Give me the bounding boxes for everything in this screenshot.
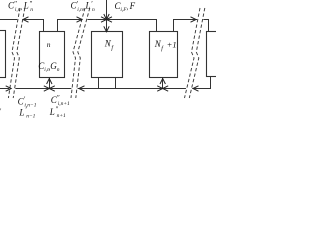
label CiF,F top-right	[115, 1, 136, 13]
arrow left converging at top junction	[107, 17, 113, 22]
arrow left on top wire 1	[23, 17, 29, 22]
arrow right converging at top junction	[101, 17, 107, 22]
wire vertical into box Nf	[106, 0, 108, 32]
label C'in-1 bottom-left	[18, 96, 37, 109]
svg-text:n+1: n+1	[57, 113, 66, 119]
arrow up into box Nf+1 bottom	[160, 79, 165, 85]
label Nf+1 in box Nf+1	[154, 39, 177, 52]
box unit Nf	[92, 32, 123, 78]
arrow right on top wire 2	[77, 17, 83, 22]
arrow left converging at bottom junction n	[49, 86, 55, 91]
arrow right on bottom wire at left	[6, 86, 12, 91]
label L'n-1 bottom-left	[18, 106, 35, 120]
svg-text:n: n	[57, 67, 60, 73]
box unit Nf+1	[150, 32, 178, 78]
box unit n-1 (partial at left edge)	[0, 31, 6, 78]
label Cin,Gn in box n	[38, 61, 60, 73]
label L''n+1 bottom-middle	[49, 105, 66, 119]
wire from junction to box Nf+1	[107, 20, 157, 32]
svg-text:+1: +1	[167, 39, 177, 49]
svg-text:L: L	[49, 107, 55, 117]
break symbol 3	[185, 8, 205, 98]
label C'in,L'n top-middle	[71, 0, 96, 13]
label n in box n	[47, 40, 51, 49]
wire stub below box Nf+1	[162, 78, 164, 89]
svg-text:F: F	[129, 1, 136, 11]
break symbol 1	[8, 8, 24, 98]
wire top-right from box Nf+1	[174, 20, 209, 32]
svg-text:L: L	[85, 1, 91, 11]
svg-text:i,n+1: i,n+1	[58, 101, 70, 107]
wire top-left horizontal	[0, 20, 44, 32]
svg-text:n−1: n−1	[26, 113, 35, 119]
break symbol 2	[71, 8, 90, 98]
arrow right on top wire 4	[191, 17, 197, 22]
svg-text:,: ,	[21, 3, 23, 11]
arrow right converging at bottom junction Nf+1	[157, 86, 163, 91]
svg-text:L: L	[23, 1, 29, 11]
box unit right (partial at right edge)	[207, 32, 224, 77]
arrow down into box Nf top	[104, 26, 109, 32]
wire top from box n to junction	[58, 20, 107, 32]
svg-text:n: n	[92, 7, 95, 13]
label C''in+1 bottom-middle	[51, 94, 70, 107]
svg-text:,: ,	[127, 4, 129, 12]
label Nf in box Nf	[104, 39, 115, 52]
arrow right converging at bottom junction n	[44, 86, 50, 91]
arrow up into box n bottom	[47, 79, 52, 85]
arrow left converging at bottom junction Nf+1	[163, 86, 169, 91]
svg-text:L: L	[18, 107, 24, 117]
wire stub below box Nf right	[115, 78, 117, 89]
box unit n	[40, 32, 65, 78]
label C''in,L''n top-left	[8, 0, 33, 13]
wire bottom horizontal	[0, 77, 211, 89]
svg-text:n: n	[47, 40, 51, 49]
arrow left on bottom wire right of break 3	[193, 86, 199, 91]
wire stub below box Nf left	[98, 78, 100, 89]
cut-off prime mark at bottom-left edge	[0, 108, 2, 116]
wire stub below box n	[49, 78, 51, 89]
arrow left on bottom wire right of break 2	[79, 86, 85, 91]
svg-text:n: n	[30, 7, 33, 13]
arrow down at top junction	[104, 14, 109, 20]
